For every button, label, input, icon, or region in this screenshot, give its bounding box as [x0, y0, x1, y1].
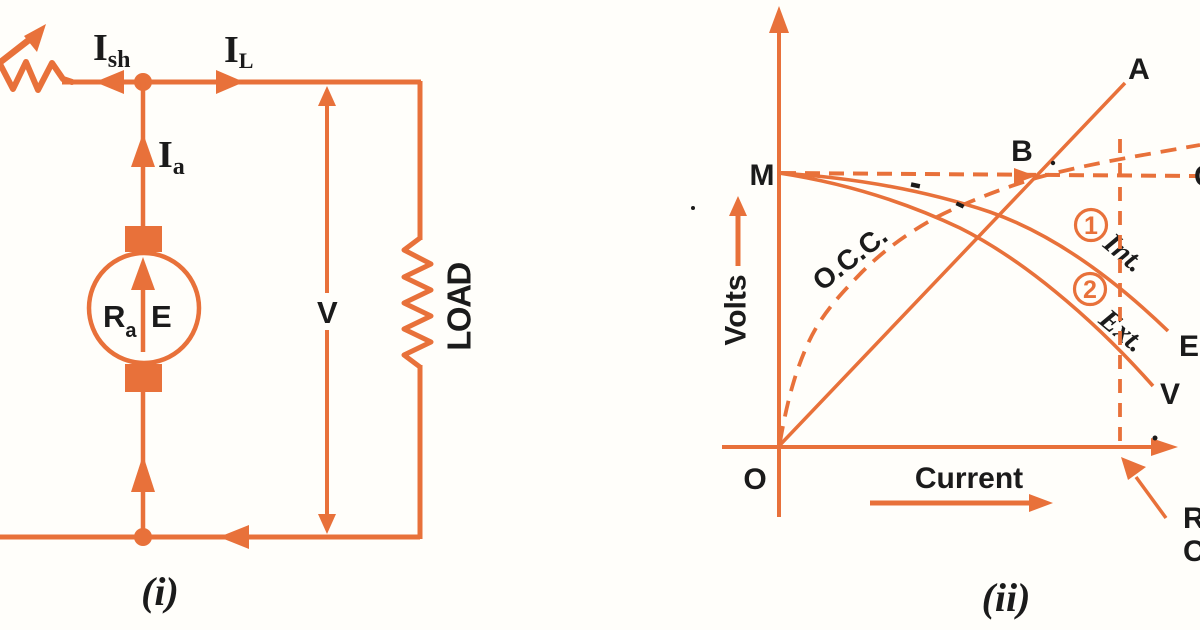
current direction arrow (right) — [870, 494, 1053, 512]
speck near volts axis — [691, 206, 695, 210]
x axis Current — [722, 438, 1178, 456]
svg-text:E: E — [151, 299, 172, 334]
svg-text:O: O — [743, 463, 766, 496]
svg-text:2: 2 — [1083, 276, 1097, 304]
speck on curve 1 — [911, 182, 921, 188]
svg-text:Rated: Rated — [1183, 502, 1200, 535]
y axis Volts — [769, 6, 789, 517]
voltmeter span V line lower — [325, 330, 329, 518]
wire top horizontal — [62, 80, 421, 85]
rheostat slider arrow — [0, 24, 46, 64]
svg-text:(i): (i) — [141, 569, 179, 614]
svg-text:B: B — [1011, 135, 1033, 168]
curve 2 external characteristic — [779, 173, 1153, 386]
svg-text:C: C — [1194, 160, 1200, 193]
brush top (square) — [125, 226, 162, 252]
svg-text:M: M — [750, 159, 775, 192]
volts direction arrow (up) — [729, 196, 747, 266]
O.C.C. dashed curve — [780, 145, 1200, 442]
brush bottom (square) — [125, 364, 162, 392]
node junction bottom — [134, 528, 152, 546]
arrow Ish (left) — [95, 70, 124, 94]
dashed line M to C (constant E0) — [781, 173, 1196, 176]
armature generator circle G — [89, 253, 199, 363]
arrow V bottom (down) — [318, 514, 336, 534]
arrow bottom wire (left) — [219, 525, 249, 549]
svg-text:1: 1 — [1084, 212, 1098, 240]
arrow up on bottom-left branch — [131, 455, 155, 492]
svg-text:LOAD: LOAD — [441, 263, 478, 351]
arrowhead on dashed line at B — [1014, 168, 1036, 184]
wire armature to bottom — [141, 392, 146, 537]
svg-text:A: A — [1128, 53, 1150, 86]
svg-text:Current: Current — [1183, 535, 1200, 568]
curve 1 internal characteristic — [779, 173, 1168, 331]
svg-text:V: V — [1160, 378, 1180, 411]
arrow IL (right) — [216, 70, 244, 94]
svg-text:Current: Current — [915, 462, 1023, 495]
wire right vertical upper — [418, 81, 423, 240]
marker circled 2 — [1075, 274, 1106, 305]
armature emf arrow (up inside circle) — [131, 257, 155, 352]
voltmeter span V line upper — [325, 102, 329, 293]
speck on curve 2 — [956, 201, 965, 208]
speck near node B — [1051, 161, 1055, 165]
svg-text:E: E — [1179, 330, 1199, 363]
rheostat (shunt field regulating resistor) zigzag — [0, 60, 72, 90]
resistor LOAD zigzag — [404, 238, 431, 367]
svg-text:(ii): (ii) — [982, 575, 1031, 620]
svg-text:Volts: Volts — [720, 274, 753, 345]
wire bottom horizontal — [0, 535, 420, 540]
node junction top — [134, 73, 152, 91]
arrow V top (up) — [318, 86, 336, 106]
rated current pointer arrow — [1121, 457, 1166, 518]
speck near rated arrow — [1153, 436, 1158, 441]
dashed vertical rated-current line — [1118, 139, 1122, 447]
svg-text:V: V — [317, 295, 338, 330]
wire junction to armature — [141, 82, 146, 228]
marker circled 1 — [1076, 210, 1107, 241]
line OA — [779, 83, 1125, 446]
wire right vertical lower — [418, 365, 423, 539]
arrow Ia (up) — [131, 133, 155, 167]
